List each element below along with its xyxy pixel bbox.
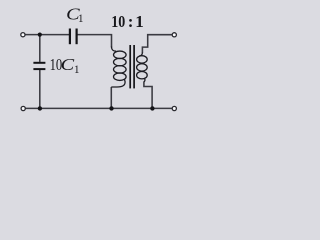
wire bottom rail xyxy=(25,107,172,109)
label 10 : 1 (transformer ratio) xyxy=(111,12,144,31)
wire: secondary bottom lead with jog to bottom rail xyxy=(144,82,152,108)
capacitor 10C1 (shunt, left) xyxy=(33,63,45,69)
junction node primary-bottom xyxy=(109,106,113,110)
label 10C1 xyxy=(50,55,80,76)
capacitor C1 (series, top) xyxy=(70,29,77,45)
terminal top-right xyxy=(172,33,176,37)
transformer core xyxy=(130,45,134,88)
wire: 10C1 bottom plate down to bottom rail xyxy=(39,70,41,108)
junction node top-left xyxy=(38,33,42,37)
transformer T1 secondary winding xyxy=(137,53,148,82)
svg-text:1: 1 xyxy=(78,11,84,25)
svg-text:1: 1 xyxy=(74,62,80,76)
label C1 xyxy=(66,4,83,24)
terminal top-left xyxy=(21,33,25,37)
terminal bottom-left xyxy=(21,106,25,110)
wire top-left: left terminal to C1 left plate xyxy=(25,34,69,36)
terminal bottom-right xyxy=(172,106,176,110)
wire: primary coil bottom lead to bottom rail xyxy=(110,87,112,108)
transformer T1 primary winding xyxy=(111,47,126,88)
junction node secondary-bottom xyxy=(150,106,154,110)
svg-text:10: 10 xyxy=(111,12,125,31)
wire top-mid: C1 right plate to corner, down to primary coil xyxy=(77,35,111,48)
svg-text:1: 1 xyxy=(135,12,144,31)
junction node bottom-left xyxy=(38,106,42,110)
svg-text::: : xyxy=(128,12,134,31)
wire: top junction down to 10C1 top plate xyxy=(39,35,41,62)
wire: secondary top lead with jog to right terminal xyxy=(142,35,172,53)
